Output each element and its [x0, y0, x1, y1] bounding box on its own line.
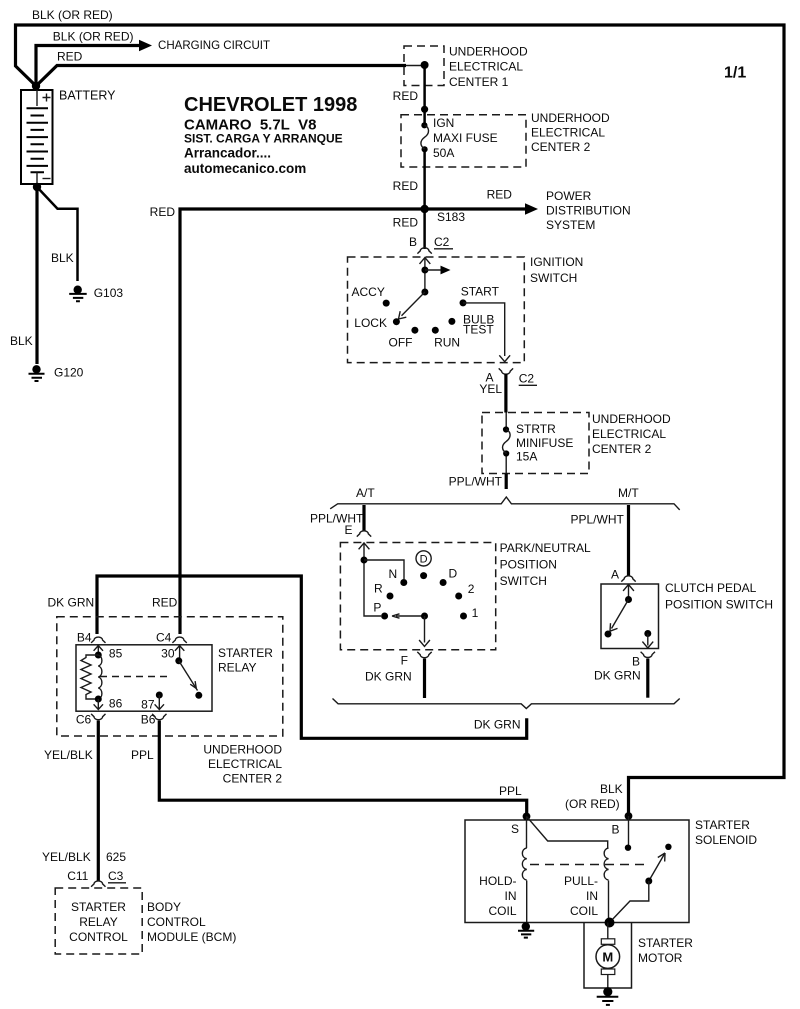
svg-text:DK GRN: DK GRN	[48, 596, 95, 610]
clutch switch internals	[605, 585, 654, 649]
contact LOCK	[393, 318, 400, 325]
wire BLK battery negative to G120	[35, 187, 38, 364]
svg-text:IN: IN	[586, 889, 598, 903]
svg-text:POSITION: POSITION	[500, 558, 557, 572]
svg-text:PARK/NEUTRAL: PARK/NEUTRAL	[500, 541, 591, 555]
svg-text:87: 87	[141, 698, 155, 712]
svg-text:STARTER: STARTER	[218, 646, 273, 660]
wire YEL ignition to minifuse	[504, 374, 507, 413]
svg-text:LOCK: LOCK	[354, 316, 387, 330]
starter motor box	[584, 923, 632, 989]
svg-text:B: B	[632, 655, 640, 669]
svg-text:COIL: COIL	[570, 904, 598, 918]
svg-text:2: 2	[468, 582, 475, 596]
svg-text:MODULE (BCM): MODULE (BCM)	[147, 930, 236, 944]
svg-text:BLK (OR RED): BLK (OR RED)	[53, 30, 134, 44]
svg-text:IN: IN	[505, 889, 517, 903]
svg-text:ELECTRICAL: ELECTRICAL	[449, 60, 523, 74]
svg-text:C3: C3	[108, 869, 124, 883]
svg-text:ACCY: ACCY	[352, 285, 385, 299]
node battery negative terminal	[33, 183, 41, 191]
svg-text:S183: S183	[437, 210, 465, 224]
svg-text:B4: B4	[77, 631, 92, 645]
solenoid switch contact	[665, 844, 671, 850]
svg-text:ELECTRICAL: ELECTRICAL	[592, 427, 666, 441]
node B terminal junction	[625, 812, 633, 820]
svg-text:PULL-: PULL-	[564, 874, 598, 888]
ground below hold-in coil	[522, 922, 530, 930]
split brace A/T M/T	[330, 497, 680, 510]
contact BULB TEST	[448, 318, 455, 325]
wire RED S183 down to ignition switch	[423, 209, 426, 249]
svg-text:RED: RED	[487, 188, 513, 202]
svg-text:RED: RED	[393, 179, 419, 193]
svg-text:G120: G120	[54, 366, 84, 380]
starter motor symbol	[596, 923, 620, 989]
svg-text:COIL: COIL	[488, 904, 516, 918]
UEC2 maxi fuse dashed box	[401, 115, 526, 167]
svg-text:YEL/BLK: YEL/BLK	[42, 850, 91, 864]
svg-text:M: M	[602, 950, 613, 965]
wire BLK(OR RED) battery positive to solenoid B terminal	[16, 25, 785, 813]
svg-text:C11: C11	[67, 869, 88, 883]
wire PPL/WHT to park/neutral switch	[362, 505, 365, 531]
svg-text:SIST. CARGA Y ARRANQUE: SIST. CARGA Y ARRANQUE	[184, 131, 343, 145]
wire START to pin A	[463, 303, 505, 356]
wire RED S183 branch left and down to relay C4	[180, 209, 425, 634]
svg-text:ELECTRICAL: ELECTRICAL	[531, 126, 605, 140]
contact R	[387, 593, 394, 600]
svg-text:POSITION SWITCH: POSITION SWITCH	[665, 598, 773, 612]
svg-text:SOLENOID: SOLENOID	[695, 833, 757, 847]
svg-text:STARTER: STARTER	[638, 936, 693, 950]
pull-in coil branch from S	[527, 816, 608, 848]
svg-text:automecanico.com: automecanico.com	[184, 161, 306, 176]
wire DK GRN park/neutral to bus	[423, 659, 426, 699]
contact D	[440, 579, 447, 586]
svg-text:1: 1	[472, 606, 479, 620]
resistor (relay)	[81, 655, 98, 699]
svg-text:CENTER 2: CENTER 2	[531, 140, 591, 154]
svg-text:YEL/BLK: YEL/BLK	[44, 748, 93, 762]
svg-text:C2: C2	[434, 235, 450, 249]
contact START	[460, 299, 467, 306]
svg-text:YEL: YEL	[479, 382, 502, 396]
contact 2	[455, 593, 462, 600]
wire PPL/WHT minifuse to split	[505, 474, 508, 490]
svg-text:UNDERHOOD: UNDERHOOD	[449, 45, 528, 59]
svg-text:PPL: PPL	[131, 748, 154, 762]
svg-text:UNDERHOOD: UNDERHOOD	[592, 412, 671, 426]
svg-text:ELECTRICAL: ELECTRICAL	[208, 757, 282, 771]
park/neutral internal wiring	[359, 543, 430, 647]
starter solenoid box	[465, 820, 689, 923]
svg-text:IGN: IGN	[433, 116, 454, 130]
svg-text:Arrancador....: Arrancador....	[184, 146, 271, 161]
arrowhead charging circuit	[139, 40, 152, 52]
node junction above UEC2	[421, 106, 428, 113]
wire BLK(OR RED) to charging circuit	[36, 46, 140, 87]
fuse STRTR MINIFUSE 15A	[503, 413, 511, 474]
svg-text:IGNITION: IGNITION	[530, 255, 583, 269]
svg-text:RELAY: RELAY	[218, 661, 256, 675]
relay armature 30 to 87	[179, 661, 198, 691]
connector B6	[152, 714, 166, 720]
bus brace DK GRN join	[333, 699, 680, 709]
node S183	[420, 205, 428, 213]
connector pin F	[417, 652, 431, 658]
svg-text:50A: 50A	[433, 146, 454, 160]
svg-text:CONTROL: CONTROL	[147, 915, 206, 929]
svg-text:BLK: BLK	[51, 251, 74, 265]
svg-text:C4: C4	[156, 631, 172, 645]
svg-text:86: 86	[109, 697, 123, 711]
svg-text:625: 625	[106, 850, 126, 864]
svg-text:MOTOR: MOTOR	[638, 951, 683, 965]
svg-text:RED: RED	[393, 216, 419, 230]
solenoid switch armature	[649, 853, 665, 881]
svg-text:A/T: A/T	[356, 486, 375, 500]
svg-text:CONTROL: CONTROL	[69, 930, 128, 944]
svg-text:RED: RED	[152, 596, 178, 610]
svg-text:DK GRN: DK GRN	[474, 718, 521, 732]
UEC1 dashed box	[404, 46, 444, 86]
svg-text:PPL: PPL	[499, 784, 522, 798]
svg-text:STRTR: STRTR	[516, 422, 556, 436]
svg-text:30: 30	[161, 646, 175, 660]
clutch pedal position switch box	[601, 584, 659, 649]
svg-text:HOLD-: HOLD-	[479, 874, 516, 888]
svg-text:(OR RED): (OR RED)	[565, 797, 620, 811]
svg-text:D: D	[449, 567, 458, 581]
wire DK GRN clutch to bus	[646, 659, 649, 698]
minifuse dashed box	[482, 413, 589, 474]
svg-text:DK GRN: DK GRN	[594, 669, 641, 683]
svg-text:SYSTEM: SYSTEM	[546, 218, 595, 232]
svg-text:C2: C2	[519, 372, 535, 386]
svg-text:UNDERHOOD: UNDERHOOD	[531, 111, 610, 125]
svg-text:MINIFUSE: MINIFUSE	[516, 436, 573, 450]
ignition switch dashed box	[348, 257, 525, 363]
svg-text:PPL/WHT: PPL/WHT	[571, 513, 625, 527]
wire motor to ground	[607, 988, 609, 992]
node S terminal	[523, 813, 531, 821]
svg-text:S: S	[511, 822, 519, 836]
svg-text:POWER: POWER	[546, 189, 592, 203]
ground starter motor	[603, 987, 612, 996]
wire DK GRN bus to relay B4	[97, 576, 527, 738]
svg-text:BLK: BLK	[10, 334, 33, 348]
ground G103	[69, 286, 87, 302]
ground G120	[29, 365, 45, 381]
svg-text:CHARGING CIRCUIT: CHARGING CIRCUIT	[158, 38, 271, 52]
ignition switch feed wire and arrows	[399, 258, 451, 319]
wire RED UEC1 to maxi fuse	[423, 65, 426, 125]
contact 1	[460, 613, 467, 620]
svg-text:CENTER 1: CENTER 1	[449, 75, 509, 89]
svg-text:B: B	[409, 235, 417, 249]
wire RED fuse to S183	[423, 149, 426, 205]
svg-text:1/1: 1/1	[724, 65, 746, 82]
svg-text:M/T: M/T	[618, 486, 639, 500]
node solenoid output junction	[605, 918, 615, 928]
wire RED battery positive to UEC1	[36, 66, 406, 87]
connector C6	[91, 714, 105, 720]
svg-text:SWITCH: SWITCH	[530, 271, 577, 285]
svg-text:E: E	[344, 523, 352, 537]
svg-text:STARTER: STARTER	[695, 818, 750, 832]
svg-text:R: R	[374, 582, 383, 596]
svg-text:15A: 15A	[516, 450, 537, 464]
svg-text:C6: C6	[76, 713, 92, 727]
svg-text:DISTRIBUTION: DISTRIBUTION	[546, 204, 631, 218]
dashed coil link	[100, 676, 172, 678]
svg-text:MAXI FUSE: MAXI FUSE	[433, 131, 498, 145]
contact OFF	[411, 327, 418, 334]
BCM dashed box	[55, 888, 142, 954]
pin 85	[94, 646, 103, 651]
svg-text:RED: RED	[150, 205, 176, 219]
svg-text:RELAY: RELAY	[79, 915, 117, 929]
wire RED S183 to power distribution system	[425, 207, 526, 210]
svg-text:N: N	[389, 567, 398, 581]
starter relay inner box	[76, 645, 212, 711]
contact RUN	[432, 327, 439, 334]
pin 30	[175, 646, 184, 651]
wire BLK battery negative to G103	[37, 187, 78, 281]
svg-text:CHEVROLET 1998: CHEVROLET 1998	[184, 94, 357, 116]
contact ACCY	[383, 300, 390, 307]
svg-text:85: 85	[109, 646, 123, 660]
wire PPL relay B6 to solenoid S	[159, 721, 526, 815]
pin 86	[95, 696, 102, 703]
svg-text:G103: G103	[94, 286, 124, 300]
svg-text:BLK: BLK	[600, 782, 623, 796]
battery	[21, 90, 53, 184]
hold-in coil wire and coil	[526, 816, 528, 848]
node battery positive terminal	[32, 82, 40, 90]
svg-text:DK GRN: DK GRN	[365, 670, 412, 684]
fuse IGN MAXI FUSE 50A	[421, 122, 429, 152]
wire B post into solenoid	[628, 816, 630, 848]
svg-text:START: START	[461, 285, 500, 299]
svg-text:SWITCH: SWITCH	[500, 574, 547, 588]
connector pin B clutch	[641, 652, 655, 658]
connector C2 pin A	[499, 368, 513, 374]
svg-text:B: B	[611, 823, 619, 837]
circled D indicator	[416, 551, 431, 566]
svg-text:BODY: BODY	[147, 900, 181, 914]
svg-text:PPL/WHT: PPL/WHT	[310, 512, 364, 526]
svg-text:RED: RED	[393, 89, 419, 103]
node UEC1 junction	[421, 61, 429, 69]
svg-text:BATTERY: BATTERY	[59, 89, 116, 103]
svg-text:RUN: RUN	[434, 335, 460, 349]
svg-text:STARTER: STARTER	[71, 900, 126, 914]
svg-text:PPL/WHT: PPL/WHT	[449, 475, 503, 489]
contact D-circled	[420, 572, 427, 579]
svg-text:CLUTCH PEDAL: CLUTCH PEDAL	[665, 581, 757, 595]
coil (relay)	[98, 655, 102, 699]
svg-text:BLK (OR RED): BLK (OR RED)	[32, 8, 113, 22]
wire PPL/WHT to clutch switch	[627, 505, 630, 576]
svg-text:F: F	[401, 654, 408, 668]
svg-text:CENTER 2: CENTER 2	[592, 442, 652, 456]
svg-text:B6: B6	[141, 713, 156, 727]
svg-text:UNDERHOOD: UNDERHOOD	[203, 743, 282, 757]
svg-text:D: D	[420, 554, 428, 566]
svg-text:RED: RED	[57, 50, 83, 64]
pin 87	[156, 692, 163, 699]
svg-text:A: A	[611, 568, 619, 582]
starter relay outer dashed box UEC2	[57, 617, 283, 736]
svg-text:P: P	[373, 601, 381, 615]
wire YEL/BLK relay C6 to BCM	[97, 721, 100, 881]
svg-text:TEST: TEST	[463, 323, 494, 337]
svg-text:CENTER 2: CENTER 2	[223, 772, 283, 786]
svg-text:OFF: OFF	[389, 335, 413, 349]
park/neutral position switch dashed box	[340, 543, 495, 650]
dashed solenoid link	[530, 864, 650, 866]
